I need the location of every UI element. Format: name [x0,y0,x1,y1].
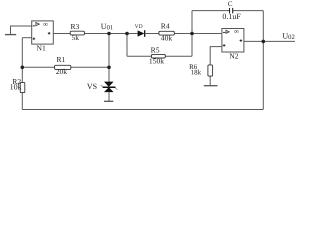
svg-text:5k: 5k [72,33,80,42]
wire N1 output to R3 [53,33,70,35]
svg-text:∞: ∞ [234,28,239,36]
svg-text:18k: 18k [191,69,202,77]
svg-text:U01: U01 [101,22,113,32]
wire capacitor row left [192,10,229,12]
svg-text:R4: R4 [161,22,170,31]
wire left vertical (N1 + input down to bottom rail) [21,38,23,110]
zener VS (bidirectional) [101,82,118,93]
wire R5 row [127,55,192,57]
ground [5,34,16,36]
node R1/+input junction [21,66,25,70]
svg-text:∞: ∞ [43,20,48,28]
wire N2 non-inverting input to R6 [210,47,222,65]
resistor R4 [159,31,174,35]
svg-text:R5: R5 [151,45,160,54]
resistor R3 [70,31,84,35]
wire capacitor row right [233,10,264,12]
svg-text:20k: 20k [56,67,68,76]
svg-text:N1: N1 [37,44,46,53]
op-amp N1 [32,20,54,44]
node output/feedback junction [262,40,266,44]
resistor R2 [20,82,25,92]
svg-text:0.1uF: 0.1uF [222,12,241,21]
svg-text:150k: 150k [149,57,164,66]
svg-text:VS: VS [87,82,97,91]
wire R6 bottom to ground [209,76,211,85]
wire right vertical (C right plate to bottom rail) [262,11,264,110]
wire N1 non-inverting input [22,37,31,39]
wire R4 to N2 inverting input [174,33,222,35]
node U01 junction [107,32,111,36]
node R4/R5/C junction [190,32,194,36]
wire R5 branch drop [126,34,128,57]
svg-text:R1: R1 [56,55,65,64]
wire N1 inverting input to ground [11,26,32,34]
wire U01 vertical down to VS [108,34,110,82]
svg-text:R3: R3 [70,22,79,31]
resistor R5 [151,54,165,58]
resistor R6 [208,65,213,76]
svg-text:VD: VD [135,24,143,30]
capacitor C [230,8,233,13]
wire R1 feedback row [22,66,109,68]
svg-text:10k: 10k [10,82,22,91]
wire N2 output to U02 [244,40,295,42]
ground [104,100,113,102]
node R5 branch junction [125,32,129,36]
svg-text:U02: U02 [282,32,294,42]
node R1/VS junction [107,66,111,70]
wire VS bottom to ground [108,92,110,101]
diode VD [138,30,145,37]
svg-text:N2: N2 [229,52,238,61]
ground [204,85,218,87]
wire diode VD to R4 [146,33,159,35]
op-amp N2 [222,28,244,52]
svg-text:C: C [228,0,233,8]
wire vertical at R4/R5/C junction [191,11,193,57]
resistor R1 [55,65,71,69]
wire R3 to diode VD through node U01 [85,33,138,35]
wire bottom rail [22,109,263,111]
svg-text:40k: 40k [161,34,173,43]
